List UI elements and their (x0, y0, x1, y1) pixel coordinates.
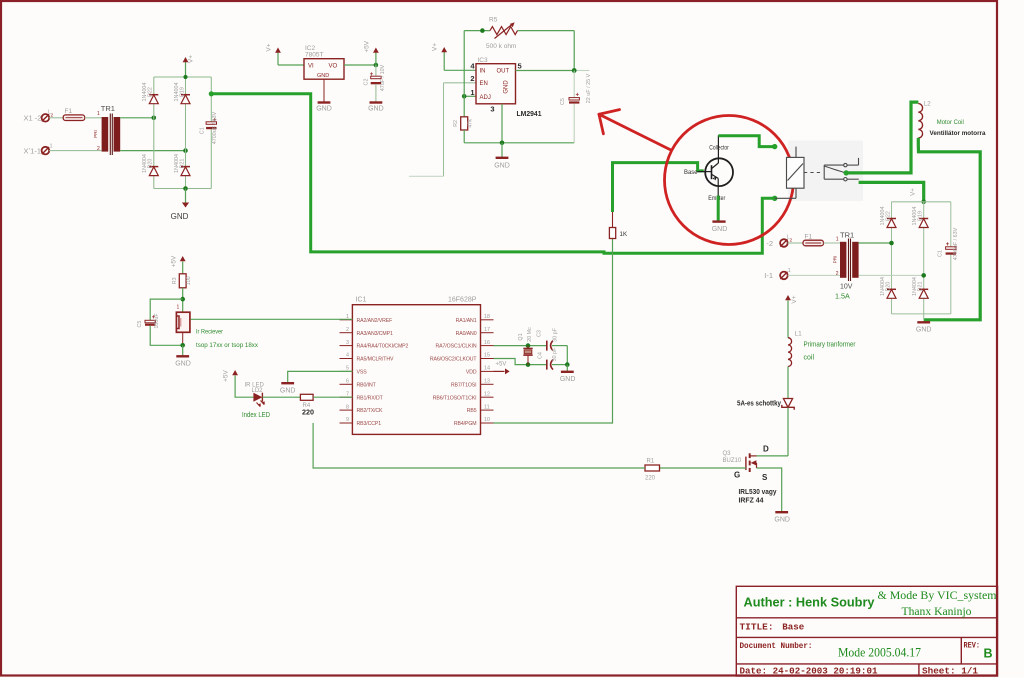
svg-text:RA0/AN0: RA0/AN0 (456, 331, 477, 337)
svg-text:RA1/AN1: RA1/AN1 (456, 318, 477, 324)
IC3 LM2941 (476, 64, 516, 104)
svg-text:+: + (370, 72, 374, 78)
svg-text:EN: EN (480, 81, 488, 87)
wire IC2 GND pin down (323, 79, 325, 102)
terminal X-2 (TR2) (780, 239, 788, 247)
diode D20 (bridge2) (887, 289, 896, 298)
svg-text:VI: VI (308, 64, 314, 70)
GND symbol (IC3) (501, 143, 503, 157)
svg-text:GND: GND (171, 212, 189, 221)
svg-text:GND: GND (916, 327, 932, 334)
wire ADJ to R2 node (464, 95, 476, 97)
terminal X1-2 (42, 114, 50, 122)
diode D20 (149, 167, 158, 176)
svg-text:30 pF: 30 pF (552, 347, 558, 361)
svg-text:1: 1 (50, 144, 53, 150)
svg-text:G: G (734, 470, 740, 479)
schottky diode 5A (782, 399, 794, 410)
svg-text:OUT: OUT (497, 69, 510, 75)
wire V+ to IC2 VI (278, 64, 304, 66)
wire X1-2 to fuse F1 (49, 117, 63, 119)
thick wire L2 to bridge2 bottom (918, 138, 980, 320)
terminal X1-1 (42, 147, 50, 155)
wire L1 to schottky (787, 367, 789, 399)
svg-text:+5V: +5V (170, 255, 177, 267)
svg-text:Ventillátor motorra: Ventillátor motorra (930, 130, 986, 137)
svg-text:+: + (946, 242, 950, 248)
IC1 left pin numbers (346, 314, 349, 423)
svg-text:Date: 24-02-2003 20:19:01: Date: 24-02-2003 20:19:01 (740, 667, 878, 677)
svg-text:18: 18 (484, 314, 490, 320)
svg-text:11: 11 (484, 404, 490, 410)
svg-text:2: 2 (836, 271, 839, 277)
svg-text:3: 3 (346, 340, 349, 346)
diode D19 (181, 95, 190, 104)
svg-text:RB2/TX/CK: RB2/TX/CK (357, 408, 384, 414)
LED LD2 (IR LED) (253, 393, 262, 402)
V+ symbol (bridge1) (185, 62, 187, 77)
svg-text:Document Number:: Document Number: (740, 641, 813, 651)
svg-text:Ir Reciever: Ir Reciever (196, 329, 224, 336)
junction node GND rail (500, 141, 505, 146)
junction node receiver Vs (180, 297, 185, 302)
svg-text:VDD: VDD (466, 370, 477, 376)
junction node +5V (374, 63, 379, 68)
svg-text:V+: V+ (432, 43, 439, 51)
svg-text:V+: V+ (909, 188, 916, 196)
svg-text:Xʼ1-1: Xʼ1-1 (24, 146, 42, 155)
V+ symbol (L1 branch) (785, 295, 791, 300)
svg-text:RA2/AN2/VREF: RA2/AN2/VREF (357, 318, 393, 324)
junction node XTAL1 (526, 343, 531, 348)
red annotation circle (665, 116, 794, 245)
capacitor C5 22uF/25V (573, 71, 575, 98)
svg-text:R3: R3 (172, 277, 178, 284)
junction node XTAL2 (526, 362, 531, 367)
resistor 1K (base) (612, 212, 614, 228)
svg-text:& Mode By VIC_system: & Mode By VIC_system (878, 588, 998, 602)
wire R3 to receiver node (182, 288, 184, 312)
svg-text:3: 3 (490, 105, 494, 114)
svg-text:Motor Coil: Motor Coil (937, 119, 964, 126)
wire C6 to GND node (150, 326, 183, 346)
capacitor C1 4700uF/63V (bridge2) (946, 247, 956, 250)
svg-text:GND: GND (504, 80, 510, 94)
resistor R2 47k (461, 117, 468, 130)
svg-text:D21: D21 (918, 282, 924, 292)
svg-text:Q1: Q1 (518, 333, 524, 340)
svg-text:IN: IN (480, 69, 486, 75)
crystal Q1 20Mc (527, 346, 529, 349)
svg-text:1.5A: 1.5A (835, 291, 850, 300)
svg-text:5A-es schottky: 5A-es schottky (737, 398, 781, 407)
R5 top rail wires (464, 31, 574, 117)
svg-text:8: 8 (346, 404, 349, 410)
svg-text:1: 1 (97, 111, 100, 117)
svg-text:GND: GND (317, 73, 329, 79)
svg-text:RB7/T1OSI: RB7/T1OSI (451, 382, 477, 388)
svg-text:+5V: +5V (364, 40, 371, 52)
svg-text:TR1: TR1 (840, 231, 854, 240)
wire TR1 sec bottom to bridge mid (120, 150, 185, 152)
GND symbol (bridge1) (185, 189, 187, 203)
potentiometer R5 500k (490, 24, 518, 39)
svg-text:ADJ: ADJ (480, 95, 491, 101)
svg-text:220: 220 (302, 408, 314, 417)
svg-text:IC3: IC3 (478, 57, 489, 64)
svg-text:+5V: +5V (496, 362, 507, 368)
svg-text:V+: V+ (791, 295, 798, 303)
svg-text:+: + (576, 93, 580, 99)
svg-text:PRI: PRI (93, 130, 98, 138)
wire IC3 GND pin (501, 104, 503, 143)
capacitor C6 100uF (145, 320, 155, 323)
base wire (black stub) (698, 171, 706, 173)
svg-text:Primary tranformer: Primary tranformer (804, 342, 857, 349)
IC1 right pin stubs 18-10 (481, 320, 494, 423)
svg-text:R5: R5 (489, 17, 498, 24)
svg-text:C1: C1 (199, 127, 205, 134)
bridge1 frame wires (154, 77, 212, 189)
svg-text:Base: Base (782, 623, 804, 633)
dashed link relay to switch (804, 172, 821, 174)
svg-text:LM2941: LM2941 (517, 109, 542, 118)
svg-text:D: D (763, 444, 769, 453)
svg-text:C1: C1 (937, 250, 943, 257)
svg-text:6: 6 (346, 379, 349, 385)
bottom rail wire (IC3) (464, 142, 574, 144)
capacitor C3 30pF (546, 341, 548, 351)
wire PIC RB4 to 1K resistor (494, 239, 613, 424)
wire MOSFET source to GND (757, 468, 782, 512)
svg-text:-2: -2 (766, 239, 773, 248)
svg-text:REV:: REV: (964, 641, 981, 651)
wire R2 to bottom rail (463, 130, 465, 143)
svg-text:13: 13 (484, 379, 490, 385)
svg-text:C5: C5 (137, 321, 143, 328)
GND symbol (receiver) (182, 345, 184, 355)
svg-text:Base: Base (684, 170, 698, 176)
svg-text:RA7/OSC1/CLKIN: RA7/OSC1/CLKIN (436, 344, 477, 350)
svg-text:C2: C2 (364, 79, 370, 86)
svg-text:C5: C5 (560, 98, 566, 105)
relay switch contacts (824, 158, 859, 181)
relay coil K1 (775, 147, 805, 199)
svg-text:Thanx Kaninjo: Thanx Kaninjo (902, 604, 972, 618)
svg-text:D19: D19 (179, 87, 185, 97)
svg-text:47k: 47k (468, 119, 474, 128)
svg-text:Auther : Henk Soubry: Auther : Henk Soubry (744, 595, 876, 610)
svg-text:16F628P: 16F628P (448, 297, 477, 304)
wire X-2 to fuse F1 (TR2) (788, 242, 803, 244)
resistor R4 220 (300, 394, 313, 400)
junction node OUT (572, 68, 577, 73)
svg-text:RB5: RB5 (467, 408, 477, 414)
svg-text:tsop 17xx or tsop 18xx: tsop 17xx or tsop 18xx (196, 342, 259, 349)
svg-text:X1 -2: X1 -2 (24, 114, 42, 123)
svg-text:5: 5 (346, 366, 349, 372)
fuse F1 (TR2) (803, 240, 824, 246)
svg-text:GND: GND (712, 226, 728, 233)
svg-text:RB4/PGM: RB4/PGM (454, 421, 477, 427)
diode D22 (149, 95, 158, 104)
svg-text:D21: D21 (179, 159, 185, 169)
svg-text:F1: F1 (805, 234, 813, 241)
thick wire switch NO to bridge2 V+ (859, 182, 924, 201)
IC2 7805T regulator (304, 59, 344, 79)
svg-text:GND: GND (280, 388, 296, 395)
wire IC3 OUT (516, 70, 575, 72)
wire X-1 to TR2 (788, 274, 840, 276)
svg-text:R1: R1 (647, 459, 655, 465)
junction node ADJ (462, 94, 467, 99)
capacitor C1 4700uF/63V (206, 118, 217, 130)
svg-text:500 k ohm: 500 k ohm (486, 43, 516, 50)
svg-text:VO: VO (329, 64, 338, 70)
svg-text:GND: GND (774, 517, 790, 524)
svg-text:7805T: 7805T (305, 52, 323, 59)
GND symbol (IC2) (318, 101, 331, 103)
wire TR2 bottom to bridge2 mid (859, 274, 924, 276)
svg-text:F1: F1 (65, 108, 73, 115)
svg-text:S: S (762, 473, 768, 482)
svg-text:Collector: Collector (709, 146, 729, 152)
svg-text:+5V: +5V (223, 369, 230, 381)
GND symbol (MOSFET source) (775, 511, 788, 513)
wire fuse to TR1 pin1 (85, 117, 102, 119)
svg-text:1: 1 (470, 88, 474, 97)
svg-text:4700uF / 63V: 4700uF / 63V (953, 227, 959, 260)
svg-text:RB1/RX/DT: RB1/RX/DT (357, 395, 384, 401)
fuse F1 (63, 115, 84, 121)
svg-text:IRFZ 44: IRFZ 44 (739, 497, 764, 504)
thick wire switch common to motor coil L2 (846, 102, 918, 173)
svg-text:10V: 10V (840, 284, 853, 291)
wire TR2 top to bridge2 (859, 242, 892, 244)
GND symbol (VSS) (281, 382, 294, 384)
GND symbol (bridge2) (917, 321, 930, 323)
svg-text:B: B (984, 647, 993, 661)
+5V symbol (LED) (232, 370, 238, 375)
svg-text:RA3/AN3/CMP1: RA3/AN3/CMP1 (357, 331, 393, 337)
svg-text:RA6/OSC2/CLKOUT: RA6/OSC2/CLKOUT (430, 357, 478, 363)
svg-text:10: 10 (484, 417, 490, 423)
junction node receiver GND (180, 343, 185, 348)
svg-text:Sheet: 1/1: Sheet: 1/1 (922, 667, 978, 677)
svg-text:15: 15 (484, 353, 490, 359)
svg-text:TR1: TR1 (101, 104, 115, 113)
IC1 left pin names (357, 318, 409, 427)
junction node (bridge AC1) (152, 116, 157, 121)
diode D19 (bridge2) (919, 219, 928, 228)
svg-text:coil: coil (804, 355, 815, 362)
diode D21 (181, 167, 190, 176)
svg-text:17: 17 (484, 327, 490, 333)
svg-text:1: 1 (177, 305, 180, 311)
junction node R5 left (480, 28, 485, 33)
svg-text:RB0/INT: RB0/INT (357, 382, 377, 388)
svg-text:BUZ10: BUZ10 (723, 458, 742, 464)
wire pin15 to crystal bottom (494, 359, 547, 365)
thick wire emitter to GND (717, 196, 720, 221)
svg-text:GND: GND (368, 106, 384, 113)
+5V symbol (IR receiver) (180, 256, 186, 261)
svg-text:220: 220 (645, 476, 656, 482)
wire fuse to TR2 (824, 242, 841, 244)
V+ symbol (IC2 input) (277, 53, 279, 66)
svg-text:4: 4 (346, 353, 349, 359)
svg-text:1K: 1K (620, 231, 628, 238)
diode D21 (bridge2) (919, 289, 928, 298)
svg-text:GND: GND (560, 376, 576, 383)
thick wire bridge1 V+ to relay coil (209, 91, 214, 96)
capacitor C4 30pF (546, 360, 548, 370)
junction node (bridge AC2) (183, 148, 188, 153)
svg-text:Index LED: Index LED (242, 412, 270, 419)
svg-text:30 pF: 30 pF (553, 327, 559, 341)
svg-text:Q3: Q3 (723, 451, 732, 457)
resistor R3 100 (179, 274, 186, 288)
junction node (bridge1 bottom) (183, 186, 188, 191)
svg-text:2: 2 (346, 327, 349, 333)
svg-text:IC1: IC1 (356, 297, 367, 304)
diode D22 (bridge2) (887, 219, 896, 228)
svg-text:4: 4 (470, 62, 475, 71)
svg-text:47uF / 10V: 47uF / 10V (380, 64, 386, 91)
title block frame (736, 586, 997, 676)
svg-text:100uF: 100uF (154, 313, 160, 329)
wire gate row from R1 (660, 467, 746, 469)
GND symbol (C2) (370, 101, 383, 103)
IC1 16F628P (352, 305, 480, 435)
bridge2 frame wires (892, 202, 951, 320)
svg-text:12: 12 (484, 391, 490, 397)
wire receiver OUT to IC1 pin1 (191, 318, 353, 320)
svg-text:16: 16 (484, 340, 490, 346)
IC1 right pin numbers (484, 314, 490, 423)
svg-text:22 uF / 25 V: 22 uF / 25 V (586, 73, 592, 103)
svg-text:GND: GND (494, 163, 510, 170)
GND symbol (transistor emitter) (712, 220, 725, 222)
wire MOSFET drain (757, 455, 789, 457)
wire R4 to IC1 pin7 (313, 396, 352, 398)
wire end node (relay coil 2) (772, 196, 777, 201)
svg-text:RA5/MCLR/THV: RA5/MCLR/THV (357, 357, 394, 363)
svg-text:5: 5 (518, 62, 522, 71)
wire EN net (409, 83, 476, 177)
svg-text:D19: D19 (918, 211, 924, 221)
svg-text:1: 1 (788, 268, 791, 274)
svg-text:20 Mc: 20 Mc (527, 327, 533, 342)
svg-text:D22: D22 (885, 211, 891, 221)
svg-text:L1: L1 (795, 331, 803, 338)
wire C3 corner to C4 node (566, 346, 568, 365)
wire TR1 sec top to bridge (120, 117, 154, 119)
svg-text:R2: R2 (453, 120, 459, 127)
svg-text:2: 2 (470, 74, 474, 83)
svg-text:4700uF / 63V: 4700uF / 63V (212, 111, 218, 144)
svg-text:RB6/T1OSO/T1CKI: RB6/T1OSO/T1CKI (433, 395, 477, 401)
junction node bridge2 V+ (921, 200, 926, 205)
junction node (bridge2 AC2) (921, 273, 926, 278)
IC1 right pin names (430, 318, 478, 427)
svg-text:D20: D20 (885, 282, 891, 292)
svg-text:L2: L2 (924, 101, 932, 108)
svg-text:D20: D20 (148, 159, 154, 169)
thick wire 1K node to transistor base (613, 163, 704, 212)
svg-text:Mode 2005.04.17: Mode 2005.04.17 (838, 646, 921, 660)
svg-text:9: 9 (346, 417, 349, 423)
svg-text:IRL530 vagy: IRL530 vagy (739, 489, 777, 496)
wire C2 to GND (375, 84, 377, 102)
svg-text:7: 7 (346, 391, 349, 397)
capacitor C2 47uF/10V (375, 65, 377, 76)
svg-text:RB3/CCP1: RB3/CCP1 (357, 421, 382, 427)
red annotation arrow (599, 110, 671, 150)
svg-text:GND: GND (175, 360, 191, 367)
light highlight panel behind relay (788, 141, 863, 202)
wire schottky to MOSFET drain (787, 408, 789, 456)
switch common node blob (844, 170, 849, 175)
+5V arrow (VDD pin14) (494, 370, 505, 372)
svg-text:V+: V+ (265, 43, 272, 51)
transistor (relay driver, NPN) (705, 135, 733, 195)
wire pin16 to crystal (494, 345, 547, 347)
svg-text:1: 1 (836, 237, 839, 243)
wire PIC RB3 to R1 (313, 423, 645, 468)
junction node C4/GND (565, 362, 570, 367)
IC1 left pin stubs 1-9 (340, 320, 353, 423)
svg-text:LD2: LD2 (252, 388, 264, 394)
svg-text:GND: GND (316, 106, 332, 113)
+5V arrow symbol (C2) (375, 53, 377, 66)
svg-text:D22: D22 (148, 87, 154, 97)
svg-text:RA4/RA4/T0CKI/CMP2: RA4/RA4/T0CKI/CMP2 (357, 344, 409, 350)
terminal X-1 (TR2) (780, 272, 788, 280)
wire X1-1 to TR1 (49, 150, 101, 152)
svg-text:V+: V+ (188, 55, 195, 63)
svg-text:C3: C3 (536, 330, 542, 337)
svg-text:VSS: VSS (357, 370, 368, 376)
svg-text:I-1: I-1 (764, 271, 773, 280)
thick wire collector to relay coil 1 (718, 136, 774, 147)
resistor R1 220 (645, 465, 660, 471)
wire LED to R4 (262, 396, 300, 398)
svg-text:C4: C4 (538, 352, 544, 359)
svg-text:TITLE:: TITLE: (740, 623, 774, 633)
wire IC2 VO to +5V node (344, 64, 376, 66)
svg-text:100: 100 (186, 276, 192, 285)
wire VSS to GND (288, 371, 353, 382)
junction node (bridge2 AC1) (889, 241, 894, 246)
wire V+ to IC3 IN (444, 69, 476, 71)
svg-text:14: 14 (484, 366, 490, 372)
wire node to C6 (150, 299, 183, 320)
V+ symbol (IC3 input) (443, 52, 445, 70)
wire +5V to LED (235, 376, 253, 398)
GND symbol (crystal) (566, 365, 568, 371)
svg-text:PRI: PRI (833, 256, 838, 264)
